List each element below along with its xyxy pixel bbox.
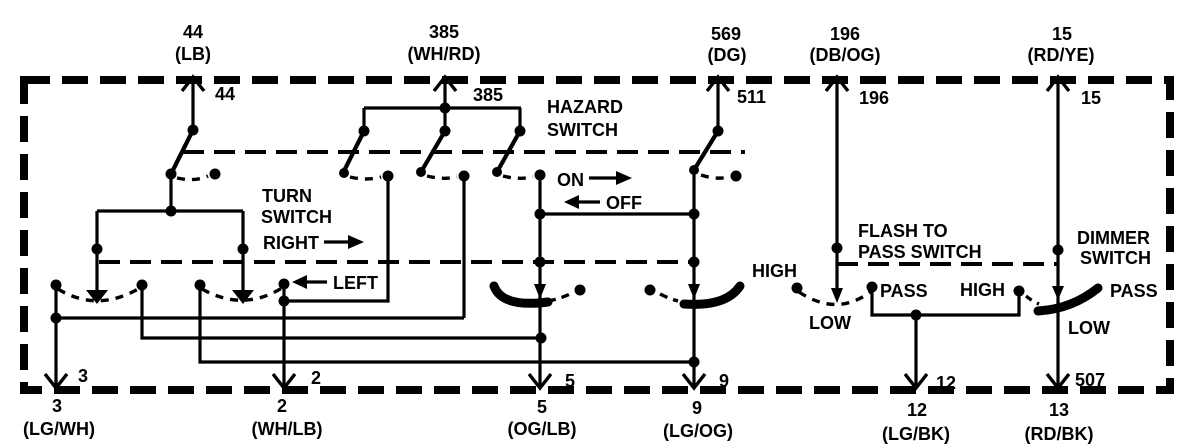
blade travel dashes 511 (701, 175, 729, 178)
svg-text:12: 12 (936, 373, 956, 393)
label circuit 196 top (810, 24, 881, 65)
node hazard bus center (440, 103, 451, 114)
svg-text:OFF: OFF (606, 193, 642, 213)
wire output 9 vertical with bottom arrow (683, 170, 705, 388)
wire net9 from turn contact (200, 285, 694, 362)
svg-text:(LB): (LB) (175, 44, 211, 64)
flash wiper travel arc (799, 292, 870, 305)
svg-text:5: 5 (537, 397, 547, 417)
svg-text:RIGHT: RIGHT (263, 233, 319, 253)
contact turn right-left (net 9) (195, 280, 206, 291)
contact turn right-right (net 2) (279, 279, 290, 290)
svg-text:385: 385 (429, 22, 459, 42)
node hazard pivot A (359, 126, 370, 137)
svg-text:569: 569 (711, 24, 741, 44)
wire 569/511 feed with up arrow (707, 77, 729, 131)
svg-text:44: 44 (215, 84, 235, 104)
contact hazard wiper right NC (645, 285, 656, 296)
wire hazard stub right (518, 108, 521, 131)
wire blade tip to wiper bus (169, 174, 172, 211)
blade travel dashes 44 (177, 176, 208, 180)
svg-text:(RD/YE): (RD/YE) (1028, 45, 1095, 65)
node hazard pivot B (440, 126, 451, 137)
contact flash HIGH (792, 283, 803, 294)
svg-text:3: 3 (78, 366, 88, 386)
svg-text:(OG/LB): (OG/LB) (508, 419, 577, 439)
switch blade hazard C (497, 131, 520, 172)
svg-text:196: 196 (830, 24, 860, 44)
wire 15 feed with up arrow (1047, 77, 1069, 388)
wire off crossbar (540, 212, 694, 215)
wire net3 horizontal to hazard contact B (56, 316, 464, 319)
label circuit 15 top (1028, 24, 1095, 65)
wiper left turn (arm with down arrow) (86, 211, 108, 304)
hazard wiper dashes right (660, 294, 678, 301)
wire hazard contact B drop (462, 176, 465, 318)
switch blade turn (44) (171, 130, 193, 174)
svg-text:196: 196 (859, 88, 889, 108)
switch blade hazard B (421, 131, 445, 172)
svg-text:9: 9 (692, 398, 702, 418)
contact NC 511 (731, 171, 742, 182)
node hazard tip C (492, 167, 502, 177)
svg-text:507: 507 (1075, 370, 1105, 390)
node junction 2/301 (279, 296, 290, 307)
svg-text:(WH/RD): (WH/RD) (408, 44, 481, 64)
contact NC 44 (210, 169, 221, 180)
svg-text:TURN: TURN (262, 186, 312, 206)
wire output 2 vertical with bottom arrow (273, 284, 295, 388)
node hazard tip A (339, 168, 349, 178)
hazard wiper dashes left (548, 293, 572, 301)
dimmer wiper arrow (1052, 286, 1064, 300)
svg-text:5: 5 (565, 371, 575, 391)
svg-text:(LG/BK): (LG/BK) (882, 424, 950, 444)
contact hazard wiper left NC (575, 285, 586, 296)
contact dimmer HIGH (1014, 286, 1025, 297)
contact hazard B (459, 171, 470, 182)
wire output 5 vertical with bottom arrow (529, 175, 551, 388)
node pivot 44 (188, 125, 199, 136)
node off-bar left (535, 209, 546, 220)
label circuit 12 bottom (882, 400, 950, 444)
node dimmer pivot (1053, 245, 1064, 256)
svg-text:PASS: PASS (880, 281, 928, 301)
wire 44 feed with up arrow (182, 77, 204, 130)
annotation arrow RIGHT (324, 235, 364, 249)
svg-text:DIMMER: DIMMER (1077, 228, 1150, 248)
blade travel dashes hazard C (503, 176, 533, 178)
svg-text:(DG): (DG) (708, 45, 747, 65)
contact turn left-right (net 5) (137, 280, 148, 291)
svg-text:PASS SWITCH: PASS SWITCH (858, 242, 982, 262)
blade travel dashes hazard A (350, 177, 381, 179)
label circuit 5 bottom (508, 397, 577, 439)
label TURN SWITCH (261, 186, 332, 253)
contact hazard A (383, 171, 394, 182)
svg-text:SWITCH: SWITCH (261, 207, 332, 227)
node hazard wiper pivot right (689, 257, 700, 268)
label circuit 2 bottom (252, 396, 323, 439)
svg-text:LOW: LOW (809, 313, 851, 333)
svg-text:(LG/OG): (LG/OG) (663, 421, 733, 441)
svg-text:44: 44 (183, 22, 203, 42)
wire output 12 vertical with bottom arrow (905, 315, 927, 388)
label FLASH TO PASS SWITCH (858, 221, 982, 262)
label circuit 13 bottom (1025, 400, 1094, 444)
flash wiper arrow (831, 288, 843, 303)
svg-text:2: 2 (311, 368, 321, 388)
connector border (dashed outline) (24, 80, 1170, 390)
wire output 3 vertical with bottom arrow (45, 285, 67, 388)
svg-text:(LG/WH): (LG/WH) (23, 419, 95, 439)
internal dashed divider upper (183, 150, 745, 154)
label DIMMER SWITCH (1077, 228, 1151, 268)
svg-text:HAZARD: HAZARD (547, 97, 623, 117)
svg-text:HIGH: HIGH (752, 261, 797, 281)
label circuit 9 bottom (663, 398, 733, 441)
svg-text:LEFT: LEFT (333, 273, 378, 293)
svg-text:13: 13 (1049, 400, 1069, 420)
wire 385 feed with up arrow (434, 77, 456, 131)
svg-text:385: 385 (473, 85, 503, 105)
label HAZARD SWITCH (547, 97, 623, 140)
svg-text:ON: ON (557, 170, 584, 190)
node off-bar right (689, 209, 700, 220)
annotation arrow ON (589, 171, 632, 185)
wiper travel arc left pole (58, 288, 140, 301)
svg-text:9: 9 (719, 371, 729, 391)
node junction 3/318 (51, 313, 62, 324)
switch blade 511 (694, 131, 718, 170)
svg-text:HIGH: HIGH (960, 280, 1005, 300)
annotation arrow OFF (564, 195, 600, 209)
internal dashed divider lower (99, 260, 694, 264)
svg-text:15: 15 (1081, 88, 1101, 108)
switch blade hazard A (343, 131, 364, 173)
hazard wiper arc right (thick) (684, 286, 740, 304)
wire wiper bus horizontal (97, 209, 243, 212)
wiper travel arc right pole (202, 288, 282, 300)
hazard wiper arc left (thick) (494, 286, 548, 303)
wire hazard stub left (362, 108, 365, 131)
svg-text:(WH/LB): (WH/LB) (252, 419, 323, 439)
node hazard tip B (416, 167, 426, 177)
hazard wiper arrow left (534, 284, 546, 299)
annotation arrow LEFT (292, 275, 327, 289)
wire net12 pass link (872, 287, 1019, 315)
wire 196 feed with up arrow (826, 77, 848, 290)
label circuit 385 top (408, 22, 481, 64)
svg-text:15: 15 (1052, 24, 1072, 44)
hazard wiper arrow right (688, 284, 700, 299)
label circuit 3 bottom (23, 396, 95, 439)
node hazard pivot C (515, 126, 526, 137)
wire net5 from turn contact (142, 285, 541, 338)
svg-text:12: 12 (907, 400, 927, 420)
svg-text:2: 2 (277, 396, 287, 416)
svg-text:511: 511 (737, 87, 766, 107)
node blade tip 44 (166, 169, 177, 180)
svg-text:(DB/OG): (DB/OG) (810, 45, 881, 65)
node flash pivot (832, 243, 843, 254)
svg-text:LOW: LOW (1068, 318, 1110, 338)
internal dashed divider flash-to-pass (837, 262, 1057, 266)
node pivot 511 (713, 126, 724, 137)
dimmer wiper arc (thick) (1038, 288, 1098, 311)
wire net2 horizontal to hazard contact A (284, 176, 388, 301)
label circuit 44 top (175, 22, 211, 64)
node junction net5 (536, 333, 547, 344)
node junction net12 (911, 310, 922, 321)
node hazard wiper pivot left (535, 257, 546, 268)
contact flash PASS (867, 282, 878, 293)
svg-text:PASS: PASS (1110, 281, 1158, 301)
node junction net9 (689, 357, 700, 368)
wiper right turn (arm with down arrow) (232, 211, 254, 304)
node blade tip 511 (689, 165, 699, 175)
dimmer wiper dashes (1026, 296, 1039, 304)
contact hazard C / ON contact (535, 170, 546, 181)
svg-text:(RD/BK): (RD/BK) (1025, 424, 1094, 444)
svg-text:SWITCH: SWITCH (547, 120, 618, 140)
contact turn left-left (net 3) (51, 280, 62, 291)
svg-text:FLASH TO: FLASH TO (858, 221, 948, 241)
wire hazard bus (364, 106, 521, 109)
svg-text:SWITCH: SWITCH (1080, 248, 1151, 268)
blade travel dashes hazard B (427, 176, 457, 178)
svg-text:3: 3 (52, 396, 62, 416)
node T junction turn (166, 206, 177, 217)
label circuit 569 top (708, 24, 747, 65)
